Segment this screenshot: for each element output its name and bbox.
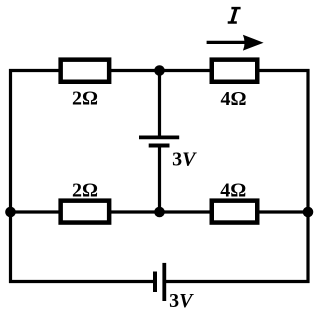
svg-text:3V: 3V <box>169 290 194 309</box>
wire: bottom rail right segment <box>164 280 309 283</box>
resistor 2ohm middle-left <box>61 201 110 223</box>
resistor 4ohm middle-right <box>212 201 258 223</box>
current arrow I head <box>243 35 264 51</box>
wire: bottom rail left segment <box>9 280 155 283</box>
label I (italic serif, drawn) <box>228 8 241 22</box>
battery V1 (middle 3V) short plate <box>149 144 170 148</box>
svg-text:2Ω: 2Ω <box>72 88 98 110</box>
wire: middle rail <box>9 210 310 213</box>
battery V2 (bottom 3V) short plate <box>153 272 157 293</box>
svg-text:4Ω: 4Ω <box>220 88 246 110</box>
resistor 2ohm top-left <box>61 60 110 82</box>
node: left middle junction <box>5 207 16 218</box>
svg-text:2Ω: 2Ω <box>72 179 98 201</box>
wire: top rail <box>9 69 310 72</box>
svg-text:3V: 3V <box>172 149 197 171</box>
resistor 4ohm top-right <box>212 60 258 82</box>
svg-text:4Ω: 4Ω <box>220 180 246 202</box>
node: center middle junction <box>154 207 165 218</box>
node: top middle junction <box>154 65 165 76</box>
current arrow I shaft <box>207 41 248 44</box>
wire: right vertical rail <box>306 69 309 283</box>
wire: left vertical rail <box>9 69 12 283</box>
wire: middle battery bottom lead <box>158 146 161 213</box>
wire: middle battery top lead <box>158 71 161 138</box>
battery V1 (middle 3V) long plate <box>139 135 179 139</box>
node: right middle junction <box>303 207 314 218</box>
battery V2 (bottom 3V) long plate <box>162 263 166 301</box>
